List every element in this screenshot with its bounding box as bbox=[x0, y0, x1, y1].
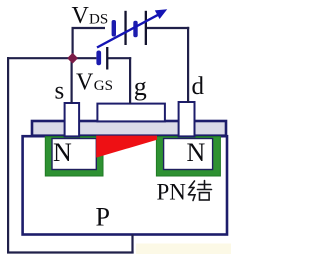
N region left (green) bbox=[45, 137, 103, 176]
N region left inner bbox=[52, 139, 96, 170]
wire: source drop from junction bbox=[70, 58, 72, 104]
svg-text:s: s bbox=[55, 78, 65, 105]
wire: substrate connection vertical bbox=[131, 235, 133, 254]
svg-text:N: N bbox=[187, 138, 206, 167]
battery VGS plate short bbox=[96, 51, 101, 66]
N region right (green) bbox=[156, 137, 220, 176]
battery VDS plate long 1 bbox=[124, 11, 126, 45]
wire: left vertical bbox=[7, 57, 9, 254]
svg-text:PN: PN bbox=[157, 180, 187, 205]
watermark strip bbox=[136, 244, 231, 255]
svg-text:g: g bbox=[134, 72, 147, 101]
P substrate box bbox=[23, 136, 227, 234]
svg-text:P: P bbox=[96, 203, 110, 232]
wire: VGS to gate horizontal bbox=[108, 57, 131, 59]
gate contact plate bbox=[97, 104, 164, 122]
depletion region (red wedge, PN junction) bbox=[96, 136, 157, 158]
metal bar bbox=[32, 121, 226, 136]
junction node bbox=[68, 54, 77, 63]
svg-text:DS: DS bbox=[89, 11, 108, 27]
glyph jie (Chinese: junction) drawn as strokes bbox=[189, 181, 212, 201]
variable arrow through VDS bbox=[97, 15, 159, 48]
battery VDS plate long 2 bbox=[145, 11, 147, 45]
wire: VDS loop top left segment bbox=[72, 27, 106, 29]
wire: bottom horizontal bbox=[7, 251, 134, 253]
svg-text:N: N bbox=[53, 138, 72, 167]
wire: top horizontal to VGS bbox=[7, 57, 96, 59]
N region right inner bbox=[164, 139, 213, 170]
wire: VDS loop left vertical bbox=[71, 27, 73, 58]
svg-text:GS: GS bbox=[94, 78, 113, 94]
wire: VDS loop right vertical to drain bbox=[187, 27, 189, 103]
battery VDS plate short 1 bbox=[112, 20, 116, 37]
battery VGS plate long bbox=[106, 47, 108, 70]
source contact stub bbox=[65, 103, 80, 136]
drain contact stub bbox=[179, 102, 195, 136]
wire: VDS loop top right segment bbox=[146, 27, 189, 29]
svg-text:d: d bbox=[192, 73, 205, 100]
svg-text:V: V bbox=[76, 70, 94, 96]
battery VDS plate short 2 bbox=[133, 21, 137, 38]
wire: gate drop vertical bbox=[129, 57, 131, 104]
svg-text:V: V bbox=[72, 3, 90, 29]
